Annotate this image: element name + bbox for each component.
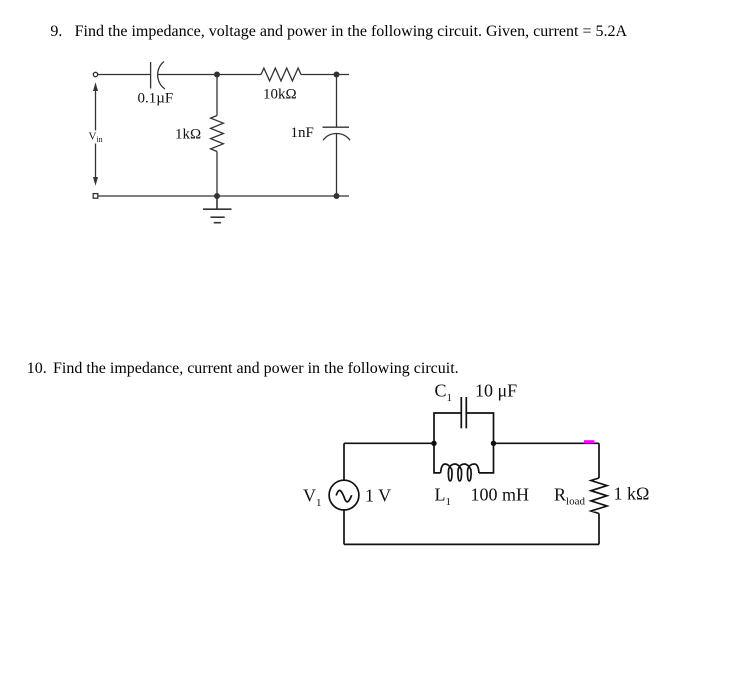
label 1 kOhm: [614, 484, 650, 504]
input terminal (bottom left, circuit 9): [93, 194, 98, 199]
tank left drop: [434, 443, 441, 473]
node E (tank left junction): [431, 441, 436, 446]
wire resistor to node B: [301, 74, 349, 76]
wire capacitor to node A: [158, 74, 217, 76]
label Rload: [554, 484, 585, 507]
svg-text:10kΩ: 10kΩ: [263, 87, 297, 103]
label 0.1uF: [138, 90, 174, 106]
svg-text:100 mH: 100 mH: [471, 484, 530, 504]
label 10kOhm: [263, 87, 297, 103]
svg-text:1 V: 1 V: [365, 486, 391, 506]
label Vin: [89, 131, 103, 145]
problem 10 statement: [27, 360, 47, 378]
svg-text:C1: C1: [435, 381, 453, 404]
svg-text:10 μF: 10 μF: [475, 381, 517, 401]
capacitor 0.1uF: [151, 62, 165, 90]
node C (bottom middle junction): [214, 193, 220, 199]
label 1kOhm: [175, 127, 201, 143]
wire top right corner down to resistor: [598, 443, 600, 478]
capacitor C1: [461, 397, 466, 428]
source V1: [329, 480, 359, 510]
resistor 10kOhm (horizontal): [261, 68, 301, 81]
bottom wire (circuit 9): [98, 195, 350, 197]
wire node A down to resistor 1k: [216, 75, 218, 116]
inductor right stub: [479, 443, 494, 473]
label L1: [435, 485, 452, 508]
wire capacitor 1nF to node D: [336, 133, 338, 196]
label 1 V: [365, 486, 391, 506]
tank right riser: [466, 413, 493, 443]
svg-text:L1: L1: [435, 485, 452, 508]
input terminal (top left, circuit 9): [93, 72, 97, 76]
svg-text:0.1µF: 0.1µF: [138, 90, 174, 106]
wire resistor 1k to node C: [216, 152, 218, 197]
node D (bottom right junction): [334, 193, 340, 199]
problem 9 statement: [50, 23, 62, 41]
wire tank to top right corner: [494, 442, 600, 444]
inductor L1: [441, 464, 479, 481]
ground: [203, 196, 232, 223]
svg-text:1nF: 1nF: [291, 125, 314, 141]
label 10 uF: [475, 381, 517, 401]
label C1: [435, 381, 453, 404]
bottom wire (circuit 10): [344, 543, 599, 545]
node F (tank right junction): [491, 441, 496, 446]
wire top-left corner down to source: [343, 443, 345, 480]
svg-text:1 kΩ: 1 kΩ: [614, 484, 650, 504]
svg-text:Rload: Rload: [554, 484, 585, 507]
Vin arrow: [93, 82, 98, 185]
label 1nF: [291, 125, 314, 141]
label 100 mH: [471, 484, 530, 504]
wire resistor to bottom wire: [598, 514, 600, 545]
wire node A to resistor 10k: [217, 74, 261, 76]
node B (top right junction): [334, 72, 340, 78]
svg-text:V1: V1: [303, 486, 322, 509]
top wire left (circuit 10): [344, 442, 434, 444]
wire node B down to capacitor 1nF: [336, 75, 338, 128]
svg-text:Vin: Vin: [89, 131, 103, 145]
capacitor 1nF: [323, 127, 351, 140]
highlight mark: [584, 440, 595, 443]
resistor 1kOhm (vertical): [211, 116, 224, 152]
label V1: [303, 486, 322, 509]
wire top-left to capacitor: [98, 74, 151, 76]
tank left riser: [434, 413, 461, 443]
wire source to bottom wire: [343, 510, 345, 544]
svg-text:1kΩ: 1kΩ: [175, 127, 201, 143]
node A (top middle junction): [214, 72, 220, 78]
resistor Rload: [591, 478, 607, 514]
